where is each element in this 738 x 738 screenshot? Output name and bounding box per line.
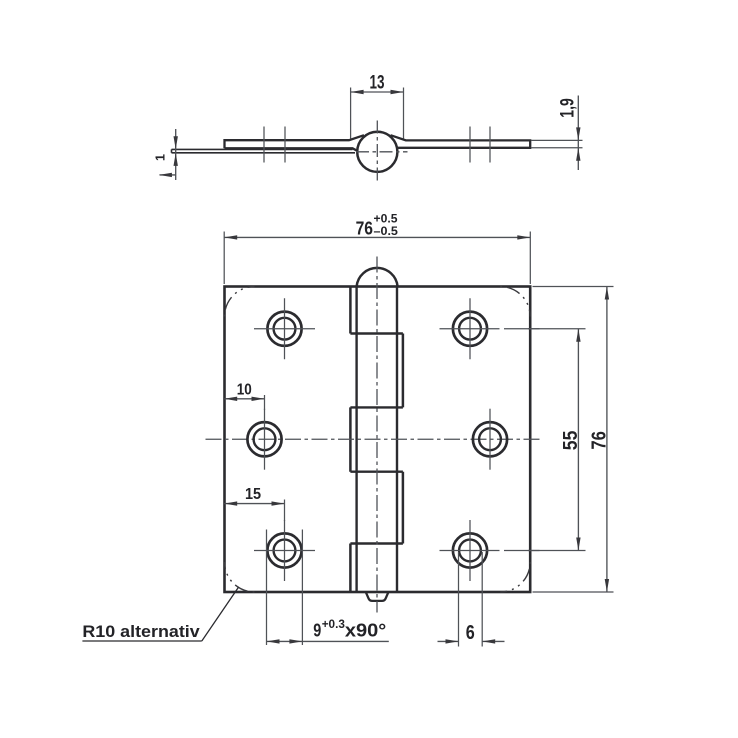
dimension 1,9 (right plate thickness) bbox=[531, 96, 583, 171]
svg-text:+0.3: +0.3 bbox=[322, 617, 346, 631]
dimension 1 (left sheet thickness) bbox=[160, 129, 176, 180]
svg-text:9: 9 bbox=[313, 620, 321, 641]
hole bottom-left bbox=[254, 520, 315, 581]
upper leaf plate right portion bbox=[391, 135, 531, 148]
corner arc R10 top-right bbox=[500, 287, 530, 317]
pin tip (bottom) bbox=[366, 592, 388, 601]
horizontal center line (middle row) bbox=[206, 438, 544, 440]
dimension 13 (barrel width) bbox=[351, 88, 404, 139]
svg-text:R10 alternativ: R10 alternativ bbox=[82, 623, 200, 641]
dimension 55 (hole row spacing, right) bbox=[528, 329, 586, 551]
barrel cap (top knuckle rounded head) bbox=[357, 268, 398, 287]
svg-text:1: 1 bbox=[154, 154, 168, 161]
svg-text:x90°: x90° bbox=[345, 620, 386, 641]
dimension 10 (middle hole offset) bbox=[224, 398, 264, 400]
hole bottom-right bbox=[440, 520, 540, 581]
svg-text:6: 6 bbox=[466, 622, 475, 644]
hole position ticks (side view) bbox=[264, 127, 490, 163]
corner arc R10 bottom-left bbox=[225, 562, 255, 592]
svg-text:10: 10 bbox=[237, 381, 252, 398]
corner arc R10 top-left bbox=[225, 287, 255, 317]
dimension 15 (corner hole offset) bbox=[224, 503, 284, 505]
left leaf thin sheet (1mm) edge view bbox=[172, 149, 356, 152]
dimension 76 (height, right) bbox=[533, 287, 614, 593]
hole middle-right bbox=[473, 409, 507, 470]
knuckle joint lines bbox=[350, 334, 403, 544]
svg-text:76: 76 bbox=[589, 431, 611, 450]
barrel outer-left edge (knuckles 1,3,5) bbox=[349, 287, 352, 593]
svg-text:1,9: 1,9 bbox=[558, 98, 579, 117]
right/upper leaf plate (1.9mm) left portion bbox=[225, 135, 365, 151]
barrel centerlines (side view) bbox=[356, 121, 408, 185]
dimension 76 +0.5/-0.5 (top width) bbox=[224, 232, 530, 285]
dimension 9 +0.3 x 90deg (countersink) bbox=[267, 530, 389, 646]
svg-text:76: 76 bbox=[356, 218, 373, 239]
svg-text:13: 13 bbox=[370, 73, 385, 94]
svg-text:–0.5: –0.5 bbox=[374, 224, 399, 238]
plate outline (76x76 square) bbox=[225, 287, 531, 593]
hole middle-left bbox=[247, 409, 281, 470]
barrel outer-right edge (knuckles 2,4) bbox=[402, 334, 405, 544]
svg-text:15: 15 bbox=[245, 486, 261, 503]
dimension 6 (hole diameter) bbox=[438, 552, 505, 647]
vertical center line (barrel axis) bbox=[376, 257, 378, 613]
hole top-right bbox=[440, 298, 540, 359]
hole top-left bbox=[254, 298, 315, 359]
barrel inner verticals bbox=[357, 287, 397, 593]
corner arc R10 bottom-right bbox=[500, 562, 530, 592]
svg-text:55: 55 bbox=[560, 431, 582, 451]
barrel circle (side view) bbox=[357, 132, 397, 172]
